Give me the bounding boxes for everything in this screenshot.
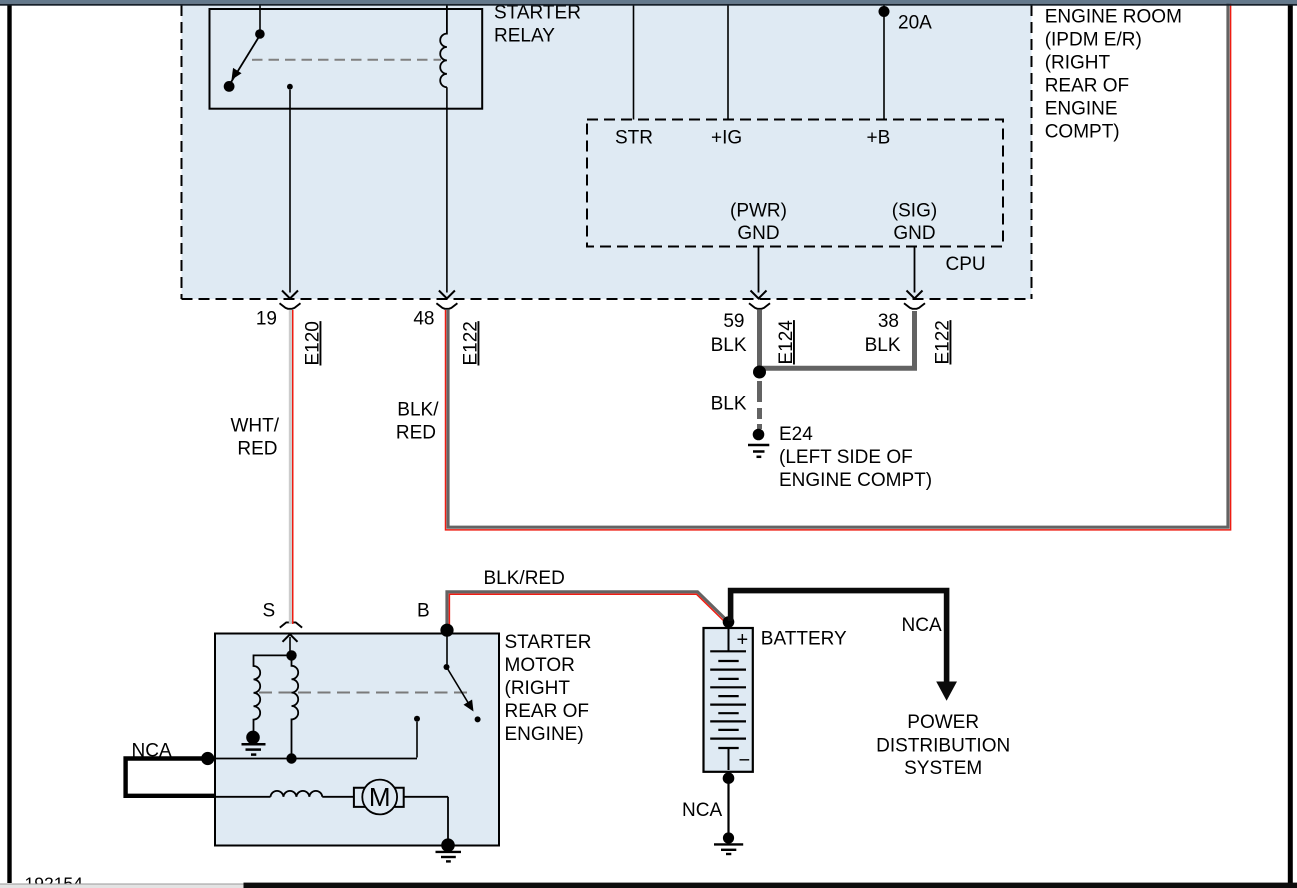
- svg-text:E120: E120: [303, 321, 324, 365]
- svg-text:ENGINE): ENGINE): [505, 724, 584, 745]
- svg-text:MOTOR: MOTOR: [505, 655, 575, 676]
- svg-text:S: S: [263, 601, 276, 622]
- svg-text:REAR OF: REAR OF: [505, 701, 589, 722]
- svg-text:POWER: POWER: [907, 712, 979, 733]
- svg-text:+B: +B: [867, 128, 891, 149]
- svg-text:E122: E122: [461, 321, 482, 365]
- svg-text:STARTER: STARTER: [505, 632, 592, 653]
- svg-text:BLK/RED: BLK/RED: [484, 568, 565, 589]
- svg-text:ENGINE: ENGINE: [1045, 99, 1118, 120]
- svg-text:RELAY: RELAY: [494, 25, 555, 46]
- svg-text:(RIGHT: (RIGHT: [1045, 53, 1111, 74]
- svg-text:E24: E24: [779, 424, 813, 445]
- svg-text:WHT/: WHT/: [230, 416, 279, 437]
- svg-text:GND: GND: [737, 223, 779, 244]
- svg-text:(PWR): (PWR): [730, 201, 787, 222]
- svg-text:BATTERY: BATTERY: [761, 628, 847, 649]
- svg-text:19: 19: [256, 309, 277, 330]
- svg-text:DISTRIBUTION: DISTRIBUTION: [876, 736, 1010, 757]
- svg-text:ENGINE COMPT): ENGINE COMPT): [779, 470, 932, 491]
- svg-text:NCA: NCA: [132, 741, 172, 762]
- svg-text:B: B: [417, 601, 430, 622]
- svg-text:20A: 20A: [898, 12, 932, 33]
- svg-text:−: −: [739, 750, 751, 772]
- svg-text:BLK: BLK: [711, 335, 747, 356]
- svg-text:(LEFT SIDE OF: (LEFT SIDE OF: [779, 447, 913, 468]
- svg-text:CPU: CPU: [946, 254, 986, 275]
- svg-text:RED: RED: [237, 439, 277, 460]
- svg-text:+: +: [737, 629, 749, 651]
- svg-text:RED: RED: [396, 423, 436, 444]
- svg-text:(SIG): (SIG): [892, 201, 937, 222]
- svg-text:REAR OF: REAR OF: [1045, 76, 1129, 97]
- svg-text:COMPT): COMPT): [1045, 122, 1120, 143]
- svg-text:48: 48: [413, 309, 434, 330]
- svg-text:BLK/: BLK/: [397, 400, 439, 421]
- svg-text:E124: E124: [776, 320, 797, 365]
- svg-text:38: 38: [878, 311, 899, 332]
- svg-text:(IPDM E/R): (IPDM E/R): [1045, 30, 1142, 51]
- svg-text:BLK: BLK: [865, 335, 901, 356]
- svg-text:M: M: [369, 782, 391, 812]
- svg-text:NCA: NCA: [902, 615, 942, 636]
- svg-text:BLK: BLK: [711, 394, 747, 415]
- svg-text:STR: STR: [615, 128, 653, 149]
- svg-text:59: 59: [723, 311, 744, 332]
- svg-text:E122: E122: [933, 320, 954, 364]
- svg-text:(RIGHT: (RIGHT: [505, 678, 571, 699]
- svg-text:+IG: +IG: [711, 128, 742, 149]
- svg-text:NCA: NCA: [682, 800, 722, 821]
- svg-text:GND: GND: [893, 223, 935, 244]
- svg-text:ENGINE ROOM: ENGINE ROOM: [1045, 7, 1182, 28]
- svg-text:SYSTEM: SYSTEM: [904, 758, 982, 779]
